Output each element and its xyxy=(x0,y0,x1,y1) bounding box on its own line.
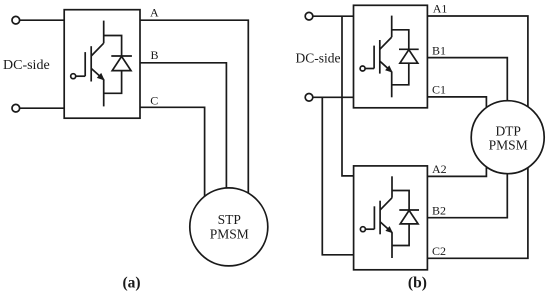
DC- terminal (b) xyxy=(305,94,313,102)
IGBT Q1(b) gate terminal circle xyxy=(360,66,365,71)
wire IGBT Q(a) collector to diode cathode xyxy=(104,36,122,57)
IGBT Q(a) emitter lead xyxy=(103,80,105,107)
wire DC- rail to bottom box (b) xyxy=(322,97,353,255)
svg-text:B1: B1 xyxy=(432,43,446,57)
svg-text:A1: A1 xyxy=(433,2,448,16)
IGBT Q(a) collector lead xyxy=(103,21,105,44)
IGBT Q(a) gate bar xyxy=(84,52,86,76)
diode Q2(b) triangle xyxy=(400,210,418,224)
IGBT Q1(b) body bar xyxy=(379,40,381,74)
wire phase A2 xyxy=(427,137,486,176)
diode Q2(b) cathode bar xyxy=(399,209,419,211)
svg-text:C2: C2 xyxy=(432,244,446,258)
IGBT Q1(b) gate bar xyxy=(373,46,375,69)
svg-text:B: B xyxy=(151,48,159,62)
DC+ terminal (b) xyxy=(305,12,313,20)
wire diode Q1(b) anode to emitter xyxy=(392,63,409,85)
IGBT Q1(b) emitter diagonal xyxy=(380,61,392,72)
IGBT Q2(b) gate terminal circle xyxy=(360,227,365,232)
DC+ terminal (a) xyxy=(12,16,20,24)
svg-text:A2: A2 xyxy=(432,162,447,176)
diode Q1(b) cathode bar xyxy=(399,48,419,50)
IGBT Q1(b) emitter lead xyxy=(391,72,393,97)
diode Q1(b) triangle xyxy=(400,50,418,64)
svg-text:DC-side: DC-side xyxy=(296,51,341,66)
wire diode Q(a) anode to emitter xyxy=(104,71,122,94)
converter box bottom (b) xyxy=(354,166,428,270)
wire DC- terminal to top box (b) xyxy=(313,96,354,98)
IGBT Q1(b) collector lead xyxy=(391,16,393,37)
wire diode Q2(b) anode to emitter xyxy=(392,224,409,246)
IGBT Q1(b) gate lead xyxy=(365,68,374,70)
wire IGBT Q1(b) collector to diode cathode xyxy=(392,30,409,50)
IGBT Q2(b) collector lead xyxy=(391,176,393,198)
DC- terminal (a) xyxy=(12,104,20,112)
converter box (a) xyxy=(64,10,140,119)
IGBT Q(a) gate lead xyxy=(76,75,86,77)
IGBT Q(a) body bar xyxy=(90,46,92,81)
wire IGBT Q2(b) collector to diode cathode xyxy=(392,191,409,211)
svg-text:A: A xyxy=(150,6,159,20)
svg-text:PMSM: PMSM xyxy=(489,137,528,152)
svg-text:(a): (a) xyxy=(122,274,140,291)
wire phase B2 xyxy=(427,137,507,218)
svg-text:DTP: DTP xyxy=(495,123,521,138)
wire DC+ terminal to box (a) xyxy=(19,19,64,21)
wire phase B (a) xyxy=(140,63,226,230)
svg-text:PMSM: PMSM xyxy=(210,227,249,242)
wire phase A1 xyxy=(427,16,528,137)
svg-text:C1: C1 xyxy=(432,83,446,97)
motor STP PMSM circle xyxy=(190,188,268,266)
svg-text:(b): (b) xyxy=(408,274,427,291)
IGBT Q2(b) collector diagonal xyxy=(380,198,392,210)
IGBT Q2(b) emitter diagonal xyxy=(380,222,392,233)
wire DC+ rail to bottom box (b) xyxy=(342,16,354,176)
wire DC+ terminal to top box (b) xyxy=(313,15,354,17)
svg-text:B2: B2 xyxy=(432,203,446,217)
converter box top (b) xyxy=(354,5,428,108)
wire phase A (a) xyxy=(140,20,248,230)
diode Q(a) cathode bar xyxy=(111,55,132,57)
IGBT Q2(b) gate bar xyxy=(373,206,375,229)
motor DTP PMSM circle xyxy=(471,101,544,174)
IGBT Q1(b) collector diagonal xyxy=(380,37,392,49)
IGBT Q2(b) body bar xyxy=(379,201,381,235)
wire phase B1 xyxy=(427,58,507,137)
svg-text:DC-side: DC-side xyxy=(3,58,50,73)
wire phase C2 xyxy=(427,137,528,258)
IGBT Q1(b) emitter arrowhead xyxy=(385,65,393,72)
wire phase C (a) xyxy=(140,107,205,230)
IGBT Q2(b) emitter arrowhead xyxy=(385,226,393,233)
diode Q(a) triangle xyxy=(112,56,131,70)
IGBT Q2(b) emitter lead xyxy=(391,233,393,258)
IGBT Q(a) emitter diagonal xyxy=(91,68,104,80)
svg-text:C: C xyxy=(150,93,158,107)
IGBT Q(a) collector diagonal xyxy=(91,43,104,56)
IGBT Q(a) gate terminal circle xyxy=(71,74,76,79)
wire phase C1 xyxy=(427,97,486,137)
svg-text:STP: STP xyxy=(218,212,241,227)
IGBT Q(a) emitter arrowhead xyxy=(97,73,105,81)
IGBT Q2(b) gate lead xyxy=(365,228,374,230)
wire DC- terminal to box (a) xyxy=(19,107,64,109)
